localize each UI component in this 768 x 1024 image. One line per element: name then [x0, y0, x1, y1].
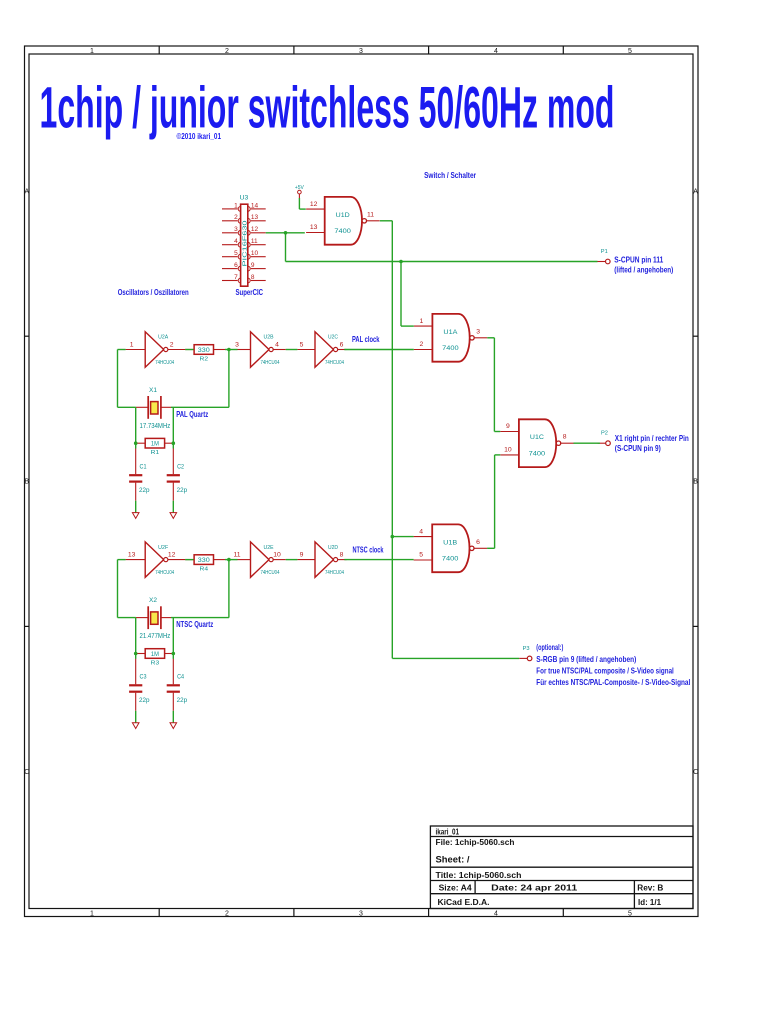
svg-text:Switch / Schalter: Switch / Schalter	[424, 170, 477, 180]
svg-text:10: 10	[251, 250, 259, 257]
svg-text:PAL clock: PAL clock	[352, 334, 380, 344]
svg-text:2: 2	[420, 341, 424, 348]
svg-text:11: 11	[251, 238, 258, 245]
inverter U2E 74HCU04	[233, 542, 285, 577]
svg-text:22p: 22p	[177, 697, 188, 704]
svg-text:X2: X2	[149, 597, 157, 604]
wire X2 right down to R3	[172, 618, 174, 659]
svg-text:A: A	[693, 189, 698, 196]
svg-text:R3: R3	[151, 661, 160, 667]
svg-text:C: C	[24, 769, 29, 776]
svg-text:74HCU04: 74HCU04	[325, 360, 344, 366]
svg-text:12: 12	[168, 551, 176, 558]
U3 pin 1 (left)	[222, 208, 238, 210]
svg-text:14: 14	[251, 202, 259, 209]
wire U3 pin12 to U1D pin13	[266, 232, 305, 234]
svg-text:(lifted / angehoben): (lifted / angehoben)	[614, 265, 673, 275]
svg-text:U1B: U1B	[443, 539, 457, 546]
U2D output pin 8	[338, 559, 347, 561]
svg-text:8: 8	[563, 434, 567, 441]
svg-text:KiCad E.D.A.: KiCad E.D.A.	[438, 898, 490, 907]
svg-text:7: 7	[234, 274, 238, 281]
U3 pin 13 (right)	[251, 220, 266, 222]
junction at U3.12 net	[284, 231, 288, 235]
svg-text:74HCU04: 74HCU04	[261, 360, 280, 366]
svg-text:12: 12	[310, 201, 318, 208]
NAND gate U1D 7400	[306, 197, 380, 245]
wire junction to U1B pin4	[392, 536, 413, 538]
svg-text:8: 8	[340, 551, 344, 558]
svg-text:C1: C1	[140, 464, 147, 471]
wire down to X1 right	[228, 350, 230, 408]
junction at U1B pin4 branch	[391, 535, 395, 539]
U2B output pin 4	[273, 349, 286, 351]
svg-text:10: 10	[504, 447, 512, 454]
resistor R1 1M	[136, 438, 174, 456]
wire U2B out to U2C in	[286, 349, 298, 351]
NAND gate U1A 7400	[414, 314, 488, 362]
svg-text:9: 9	[506, 423, 510, 430]
svg-text:74HCU04: 74HCU04	[155, 570, 174, 576]
junction at R3 left	[134, 652, 138, 656]
svg-text:P3: P3	[523, 646, 530, 652]
U2A input pin 1	[126, 349, 146, 351]
svg-text:3: 3	[476, 328, 480, 335]
wire U2A out to R2	[185, 349, 193, 351]
svg-text:R4: R4	[200, 567, 209, 573]
svg-text:PIC16F630: PIC16F630	[242, 220, 248, 266]
U1A output pin 3	[474, 337, 487, 339]
wire C4 to ground	[172, 711, 174, 723]
svg-text:NTSC Quartz: NTSC Quartz	[176, 619, 213, 629]
U1B input pin 4	[414, 536, 433, 538]
svg-text:PAL Quartz: PAL Quartz	[176, 409, 208, 419]
svg-text:Date: 24 apr 2011: Date: 24 apr 2011	[491, 884, 578, 893]
wire U2F out to R4	[185, 559, 193, 561]
svg-text:Oscillators / Oszillatoren: Oscillators / Oszillatoren	[118, 287, 189, 297]
U2F input pin 13	[126, 559, 146, 561]
wire down to X2 right	[228, 560, 230, 618]
capacitor C2 22p	[167, 449, 188, 501]
svg-text:S-RGB pin 9 (lifted / angehobe: S-RGB pin 9 (lifted / angehoben)	[536, 654, 636, 664]
wire U2D out to U1B pin5 (NTSC clock)	[344, 559, 413, 561]
wire U2E out to U2D in	[286, 559, 298, 561]
svg-text:74HCU04: 74HCU04	[261, 570, 280, 576]
svg-text:330: 330	[198, 348, 211, 354]
U3 pin 9 (right)	[251, 268, 266, 270]
resistor R4 330	[185, 555, 225, 573]
wire U2C out to U1A pin2 (PAL clock)	[344, 349, 414, 351]
svg-text:A: A	[24, 189, 29, 196]
svg-text:13: 13	[128, 551, 136, 558]
wire R2 to U2B in / crystal branch	[225, 349, 238, 351]
svg-text:1M: 1M	[151, 442, 159, 448]
U3 pin 14 (right)	[251, 208, 266, 210]
inverter U2F 74HCU04	[126, 542, 186, 577]
ground symbol	[170, 513, 177, 519]
resistor R2 330	[185, 345, 225, 363]
svg-text:3: 3	[359, 48, 363, 55]
svg-text:2: 2	[225, 910, 229, 917]
U2D input pin 9	[297, 559, 315, 561]
svg-text:7400: 7400	[442, 345, 459, 352]
svg-text:U1D: U1D	[336, 212, 350, 219]
svg-text:R2: R2	[200, 357, 209, 363]
svg-text:9: 9	[251, 262, 255, 269]
wire U1A output to U1C pin9	[487, 337, 494, 339]
svg-text:5: 5	[628, 48, 632, 55]
svg-text:U2A: U2A	[158, 335, 169, 341]
U3 pin 3 (left)	[222, 232, 238, 234]
svg-text:©2010 ikari_01: ©2010 ikari_01	[177, 132, 222, 141]
U3 pin 5 (left)	[222, 256, 238, 258]
svg-text:ikari_01: ikari_01	[436, 827, 460, 836]
wire U1B output to U1C pin10	[487, 547, 495, 549]
PAL osc feedback: inverter input vertical	[118, 349, 126, 351]
wire +5V to U1D pin 12	[298, 198, 300, 209]
U1C input pin 9	[500, 431, 519, 433]
junction at R1 right	[172, 441, 176, 445]
svg-text:9: 9	[300, 551, 304, 558]
svg-text:6: 6	[340, 341, 344, 348]
svg-text:C3: C3	[140, 674, 147, 681]
wire junction down to P1 row	[285, 233, 287, 262]
U3 pin 2 (left)	[222, 220, 238, 222]
svg-text:C2: C2	[177, 464, 184, 471]
svg-text:2: 2	[234, 214, 238, 221]
inverter U2A 74HCU04	[126, 332, 186, 367]
svg-text:10: 10	[273, 551, 281, 558]
svg-text:File: 1chip-5060.sch: File: 1chip-5060.sch	[436, 838, 515, 847]
U1D output pin 11	[367, 220, 380, 222]
svg-text:U1A: U1A	[443, 329, 458, 336]
capacitor C1 22p	[129, 449, 150, 501]
svg-text:+5V: +5V	[295, 185, 305, 191]
svg-text:13: 13	[251, 214, 259, 221]
U1C input pin 10	[500, 454, 519, 456]
svg-text:U1C: U1C	[530, 434, 544, 441]
svg-text:4: 4	[275, 341, 279, 348]
resistor R3 1M	[136, 649, 174, 667]
svg-text:U3: U3	[240, 194, 249, 201]
svg-text:Für echtes NTSC/PAL-Composite-: Für echtes NTSC/PAL-Composite- / S-Video…	[536, 677, 690, 687]
inverter U2B 74HCU04	[235, 332, 286, 367]
svg-text:7400: 7400	[442, 556, 459, 563]
svg-text:C: C	[693, 769, 698, 776]
wire C3 to ground	[135, 711, 137, 723]
U1A input pin 2	[414, 349, 433, 351]
svg-text:5: 5	[300, 341, 304, 348]
junction at R1 left	[134, 441, 138, 445]
connector pin P3	[519, 646, 532, 661]
svg-text:R1: R1	[151, 450, 160, 456]
svg-text:U2E: U2E	[264, 545, 275, 551]
U2E input pin 11	[238, 559, 251, 561]
crystal X2 21.477MHz	[136, 597, 214, 640]
wire R4 to U2E in / crystal branch	[225, 559, 238, 561]
junction at R4/X2	[227, 558, 231, 562]
IC U3 SuperCIC PIC16F630	[222, 194, 266, 297]
svg-text:4: 4	[494, 910, 498, 917]
svg-text:1: 1	[90, 48, 94, 55]
svg-text:C4: C4	[177, 674, 184, 681]
svg-text:(optional:): (optional:)	[536, 642, 563, 652]
svg-text:P2: P2	[601, 431, 608, 437]
connector pin P2	[598, 431, 611, 446]
svg-text:6: 6	[476, 539, 480, 546]
svg-text:11: 11	[367, 211, 374, 218]
U3 pin 8 (right)	[251, 280, 266, 282]
svg-text:U2B: U2B	[264, 335, 275, 341]
svg-text:21.477MHz: 21.477MHz	[140, 633, 171, 640]
inverter U2D 74HCU04	[297, 542, 346, 577]
svg-text:Id: 1/1: Id: 1/1	[638, 898, 662, 907]
U1B input pin 5	[414, 559, 433, 561]
capacitor C3 22p	[129, 659, 150, 711]
U2B input pin 3	[238, 349, 251, 351]
svg-text:74HCU04: 74HCU04	[155, 360, 174, 366]
svg-text:2: 2	[225, 48, 229, 55]
svg-text:U2C: U2C	[328, 335, 338, 341]
wire down to U1A pin1	[400, 262, 402, 327]
svg-text:U2F: U2F	[158, 545, 168, 551]
svg-text:7400: 7400	[334, 228, 351, 235]
svg-text:12: 12	[251, 226, 259, 233]
U3 pin 11 (right)	[251, 244, 266, 246]
wire U1C output to P2	[574, 442, 600, 444]
svg-text:7400: 7400	[529, 451, 546, 458]
ground symbol	[132, 723, 139, 729]
svg-text:13: 13	[310, 224, 318, 231]
svg-text:Sheet: /: Sheet: /	[436, 854, 470, 865]
U1D input pin 13	[306, 232, 325, 234]
U2A output pin 2	[168, 349, 185, 351]
wire X1 left down to R1	[135, 407, 137, 448]
svg-text:8: 8	[251, 274, 255, 281]
svg-text:1M: 1M	[151, 652, 159, 658]
+5V power symbol	[295, 185, 305, 198]
svg-text:3: 3	[234, 226, 238, 233]
svg-text:For true NTSC/PAL composite /: For true NTSC/PAL composite / S-Video si…	[536, 666, 674, 676]
wire X1 right down to R1	[172, 407, 174, 448]
svg-text:22p: 22p	[139, 697, 150, 704]
svg-text:B: B	[693, 479, 698, 486]
U2C output pin 6	[338, 349, 347, 351]
title block	[430, 826, 693, 909]
svg-text:Title: 1chip-5060.sch: Title: 1chip-5060.sch	[436, 871, 522, 880]
svg-text:2: 2	[170, 341, 174, 348]
capacitor C4 22p	[167, 659, 188, 711]
sheet border frame	[25, 46, 699, 917]
U3 pin 6 (left)	[222, 268, 238, 270]
svg-text:330: 330	[198, 558, 211, 564]
wire C1 to ground	[135, 501, 137, 513]
NTSC osc feedback: inverter input vertical	[118, 559, 126, 561]
ground symbol	[170, 723, 177, 729]
U3 pin 7 (left)	[222, 280, 238, 282]
svg-text:U2D: U2D	[328, 545, 338, 551]
svg-text:3: 3	[359, 910, 363, 917]
svg-text:Size: A4: Size: A4	[439, 884, 473, 893]
NAND gate U1C 7400	[500, 419, 574, 467]
svg-text:(S-CPUN pin 9): (S-CPUN pin 9)	[615, 443, 661, 453]
junction at R2/X1	[227, 348, 231, 352]
svg-text:3: 3	[235, 341, 239, 348]
svg-text:SuperCIC: SuperCIC	[236, 287, 264, 297]
svg-text:22p: 22p	[139, 487, 150, 494]
svg-text:X1 right pin / rechter Pin: X1 right pin / rechter Pin	[615, 433, 689, 443]
svg-text:5: 5	[628, 910, 632, 917]
svg-text:NTSC clock: NTSC clock	[353, 544, 384, 554]
svg-text:4: 4	[494, 48, 498, 55]
U1C output pin 8	[561, 442, 574, 444]
U2E output pin 10	[273, 559, 286, 561]
svg-text:5: 5	[419, 552, 423, 559]
connector pin P1	[597, 249, 610, 264]
svg-text:P1: P1	[601, 249, 608, 255]
svg-text:X1: X1	[149, 387, 157, 394]
U1D input pin 12	[306, 208, 325, 210]
svg-text:4: 4	[419, 528, 423, 535]
svg-text:11: 11	[233, 551, 240, 558]
inverter U2C 74HCU04	[297, 332, 346, 367]
wire to P3	[392, 657, 519, 659]
svg-text:17.734MHz: 17.734MHz	[140, 423, 171, 430]
svg-text:22p: 22p	[177, 487, 188, 494]
svg-text:74HCU04: 74HCU04	[325, 570, 344, 576]
svg-text:B: B	[24, 479, 29, 486]
svg-text:S-CPUN pin 111: S-CPUN pin 111	[614, 255, 663, 265]
NAND gate U1B 7400	[414, 524, 488, 572]
svg-text:4: 4	[234, 238, 238, 245]
U3 pin 4 (left)	[222, 244, 238, 246]
svg-text:1: 1	[130, 341, 134, 348]
ground symbol	[132, 513, 139, 519]
wire long horizontal to P1	[286, 261, 598, 263]
svg-text:5: 5	[234, 250, 238, 257]
svg-text:1: 1	[234, 202, 238, 209]
U2F output pin 12	[168, 559, 185, 561]
svg-text:1: 1	[90, 910, 94, 917]
U3 pin 12 (right)	[251, 232, 266, 234]
wire C2 to ground	[172, 501, 174, 513]
svg-text:1: 1	[420, 318, 424, 325]
crystal X1 17.734MHz	[136, 387, 209, 430]
svg-text:1chip / junior switchless 50/6: 1chip / junior switchless 50/60Hz mod	[40, 76, 615, 141]
U1A input pin 1	[414, 325, 433, 327]
U1B output pin 6	[474, 547, 487, 549]
junction at U1A.1 branch	[399, 260, 403, 264]
wire X2 left down to R3	[135, 618, 137, 659]
U3 pin 10 (right)	[251, 256, 266, 258]
U2C input pin 5	[297, 349, 315, 351]
wire U1D output down (switch signal)	[380, 220, 393, 222]
svg-text:6: 6	[234, 262, 238, 269]
svg-text:Rev: B: Rev: B	[637, 884, 663, 893]
junction at R3 right	[172, 652, 176, 656]
